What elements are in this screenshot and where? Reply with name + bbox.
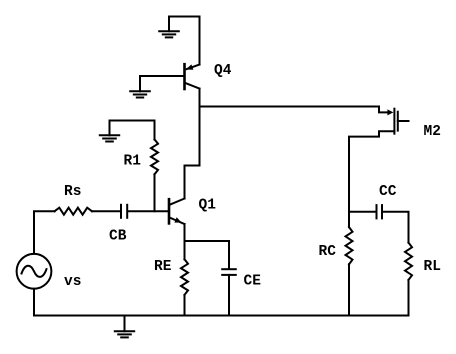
svg-text:CE: CE xyxy=(244,274,262,290)
wire CB to Q1 base xyxy=(128,210,168,212)
resistor RL xyxy=(405,243,412,316)
wire CC to RL xyxy=(383,212,409,243)
capacitor CC xyxy=(377,205,383,218)
wire node N1 down to Q1 collector xyxy=(185,107,200,199)
wire Q4 base xyxy=(140,75,184,77)
svg-text:CC: CC xyxy=(379,184,397,200)
ground (Q4 emitter supply) xyxy=(159,17,179,38)
wire Rs to CB xyxy=(92,210,120,212)
svg-text:R1: R1 xyxy=(124,154,142,170)
wire RC/CC node to CC xyxy=(349,211,376,213)
capacitor CE xyxy=(222,269,236,315)
wire emitter node to CE xyxy=(185,241,230,268)
source vs xyxy=(17,254,52,289)
transistor Q4 xyxy=(185,64,200,106)
wire top ground to Q4 emitter xyxy=(169,17,200,65)
wire R1 top xyxy=(110,120,155,122)
wire vs top to Rs xyxy=(34,211,55,253)
wire M2 source to RC/CC node xyxy=(349,131,394,212)
ground (bottom rail) xyxy=(115,316,134,338)
svg-text:Q4: Q4 xyxy=(214,63,232,79)
svg-text:RE: RE xyxy=(154,259,172,275)
svg-text:vs: vs xyxy=(64,274,81,290)
resistor RC xyxy=(346,212,353,316)
ground (R1 top) xyxy=(100,121,119,142)
svg-text:Rs: Rs xyxy=(64,184,81,200)
ground (Q4 base) xyxy=(130,76,150,98)
resistor R1 xyxy=(151,121,158,212)
svg-text:M2: M2 xyxy=(424,124,441,140)
resistor RE xyxy=(181,241,188,316)
resistor Rs xyxy=(55,208,92,215)
transistor Q1 xyxy=(169,199,185,242)
wire node N1 to M2 gate xyxy=(200,107,394,116)
svg-text:RL: RL xyxy=(424,259,441,275)
svg-text:CB: CB xyxy=(109,229,127,245)
svg-text:RC: RC xyxy=(319,244,337,260)
svg-text:Q1: Q1 xyxy=(199,198,217,214)
wire vs bottom xyxy=(33,289,35,316)
bottom rail wire xyxy=(34,315,409,317)
MOSFET M2 xyxy=(394,109,408,134)
capacitor CB xyxy=(121,205,127,218)
